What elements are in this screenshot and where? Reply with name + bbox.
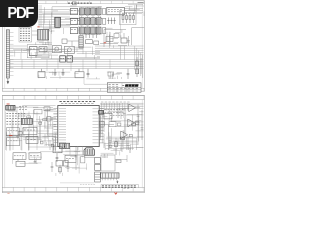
revision mark red <box>115 192 118 194</box>
crystal Y1 circuit <box>45 110 57 146</box>
optocoupler pair below U10 <box>60 143 70 148</box>
right mid cluster with diodes <box>100 28 126 48</box>
bus stubs left into relay cluster <box>10 46 28 53</box>
IC U1 row with transformer group <box>70 8 105 16</box>
test point TP2 red <box>7 103 10 105</box>
decoupling caps under bus <box>38 69 65 78</box>
revision mark red left <box>7 192 9 194</box>
capacitor row right of relay <box>85 34 100 44</box>
transistor Q1 <box>52 46 61 53</box>
mid-right sub-circuit cluster <box>118 33 130 46</box>
IC U11 hatched <box>21 118 32 124</box>
bus turn-down verticals right <box>135 46 143 78</box>
sheet 1 top title text <box>68 2 92 5</box>
title block sheet1 with BOSE logo <box>107 83 141 92</box>
transistor Q2 <box>64 46 74 53</box>
vertical wires left cluster <box>6 112 37 151</box>
texture left dense block <box>6 106 56 151</box>
logic gates U12 <box>23 127 38 143</box>
tiny note right bottom <box>124 188 130 190</box>
transformer T1 hatched <box>84 148 95 155</box>
power transistors center bottom <box>53 147 76 163</box>
bus risers <box>22 60 110 72</box>
regulator pair VR1 VR2 <box>60 56 73 62</box>
op-amp U15 <box>121 131 128 139</box>
amp stage parts <box>39 69 101 79</box>
terminal bar with cells <box>101 173 119 184</box>
parts between left cluster and U10 <box>33 107 58 150</box>
bottom-left relay boxes <box>13 153 42 167</box>
wires around U5 <box>32 31 55 55</box>
wires below U10 <box>40 147 90 155</box>
resistor bank rows sheet2 left <box>6 113 25 124</box>
long wire above lower margin <box>50 77 84 79</box>
copyright line <box>60 183 95 184</box>
filter parts below comparators <box>104 134 129 152</box>
drawing number strip sheet2 <box>101 185 139 188</box>
texture right dense block <box>100 105 143 150</box>
wire to title block area <box>84 78 107 85</box>
capacitor row right cluster <box>100 108 126 132</box>
cluster above title block <box>107 71 122 79</box>
small parts left of connector column <box>75 147 95 163</box>
power bus right half <box>95 46 144 60</box>
IC U3 row with transformer group <box>70 27 105 35</box>
PDF badge overlay <box>0 0 38 27</box>
voltage ref dark block <box>99 111 104 114</box>
resistor array rows right <box>105 110 124 115</box>
wire bus into IC rows <box>39 5 102 27</box>
connector J1 long header <box>6 30 9 85</box>
wires top right <box>124 4 144 16</box>
top bus grid right sheet2 <box>100 103 144 110</box>
bus label dashes right top <box>101 101 130 103</box>
driver boxes bottom center <box>56 161 68 167</box>
diode matrix left <box>6 128 19 146</box>
op-amp U14 <box>128 119 140 127</box>
stacked connector boxes <box>95 158 101 182</box>
note box right <box>132 28 145 45</box>
misc parts center bottom <box>51 146 87 176</box>
op-amp U13 <box>129 104 140 112</box>
microcontroller U10 <box>53 106 103 147</box>
comparator parts right <box>104 104 143 145</box>
connector J2 <box>55 17 61 27</box>
zone label top right <box>138 1 144 3</box>
sheet 1 border frame <box>2 1 144 92</box>
inter-row link wires <box>82 7 99 27</box>
net label strip above U10 <box>60 102 96 104</box>
IC U4 top right <box>107 7 125 15</box>
power module box right bottom <box>101 148 130 171</box>
test point TP0 red <box>37 26 39 28</box>
header P1 dark <box>6 106 27 111</box>
capacitors C10-C12 <box>107 18 115 25</box>
sheet 2 border frame <box>2 95 144 192</box>
texture mid band <box>13 46 100 59</box>
wire texture top-center block <box>42 6 102 34</box>
right components chain <box>127 57 141 79</box>
main bus lines <box>10 60 144 69</box>
IC U5 hatched <box>38 29 49 40</box>
net stub labels right of J1 <box>10 33 14 76</box>
IC U2 row with transformer group <box>70 18 105 26</box>
test point TP1 red <box>104 42 107 44</box>
resistor array rows left <box>19 27 32 42</box>
test point TP3 red <box>9 135 12 137</box>
snubber network box top right <box>120 11 136 39</box>
relay K1 sub-circuit <box>27 45 49 58</box>
relay module below U3 <box>79 36 83 48</box>
driver parts left of relay <box>62 39 79 46</box>
